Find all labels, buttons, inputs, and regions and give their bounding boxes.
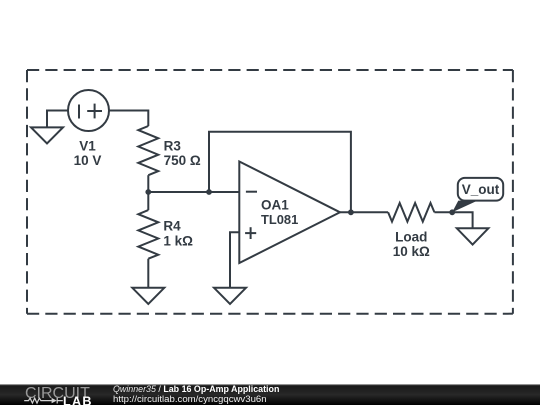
wire: node A to op-amp inverting input (148, 191, 239, 193)
svg-text:V_out: V_out (462, 182, 500, 197)
svg-text:Qwinner35 / Lab 16 Op-Amp Appl: Qwinner35 / Lab 16 Op-Amp Application (113, 384, 279, 394)
wire: node A to R4 (147, 192, 149, 210)
ground (below R4) (132, 288, 164, 304)
wire: op-amp output to Load (340, 211, 388, 213)
CircuitLab logo doodle (resistor + diode) (24, 398, 63, 404)
svg-text:http://circuitlab.com/cyncgqcw: http://circuitlab.com/cyncgqcwv3u6n (113, 394, 267, 405)
wire: Load to node V_out (434, 211, 452, 213)
svg-text:750 Ω: 750 Ω (164, 153, 201, 168)
resistor Load (388, 203, 434, 222)
resistor R4 (138, 210, 158, 259)
wire: non-inverting input to ground (230, 232, 239, 287)
ground (V1 negative) (31, 127, 63, 143)
node V_out junction (449, 209, 455, 215)
voltage source V1 (68, 90, 109, 131)
wire: R4 to ground (147, 259, 149, 288)
footer bar (0, 384, 540, 405)
ground (output) (457, 228, 489, 244)
feedback wire: output to inverting input (209, 132, 351, 213)
schematic boundary (dashed) (27, 70, 513, 314)
op-amp OA1 (239, 162, 340, 264)
OA1 label (261, 197, 298, 226)
V1 value label (74, 138, 102, 168)
wire: R3 to node A (147, 175, 149, 192)
svg-text:Load: Load (395, 229, 427, 244)
Load value label (393, 229, 430, 259)
svg-text:R4: R4 (163, 219, 181, 234)
wire: V1 positive lead to R3 (109, 111, 148, 127)
svg-text:LAB: LAB (63, 394, 93, 405)
resistor R3 (138, 126, 158, 175)
node B junction (feedback tap) (206, 189, 212, 195)
wire: node V_out to ground (452, 212, 472, 228)
node OUT junction (348, 209, 354, 215)
wire: V1 negative lead to ground (47, 111, 68, 128)
R4 value label (163, 219, 193, 249)
R3 value label (164, 138, 201, 168)
svg-text:1 kΩ: 1 kΩ (163, 234, 193, 249)
flag V_out (452, 178, 503, 212)
ground (non-inverting input) (214, 288, 246, 304)
svg-text:V1: V1 (79, 138, 96, 153)
node A junction (145, 189, 151, 195)
svg-text:R3: R3 (164, 138, 182, 153)
svg-text:10 V: 10 V (74, 153, 102, 168)
svg-text:10 kΩ: 10 kΩ (393, 244, 430, 259)
svg-text:TL081: TL081 (261, 212, 298, 227)
svg-text:OA1: OA1 (261, 197, 289, 212)
